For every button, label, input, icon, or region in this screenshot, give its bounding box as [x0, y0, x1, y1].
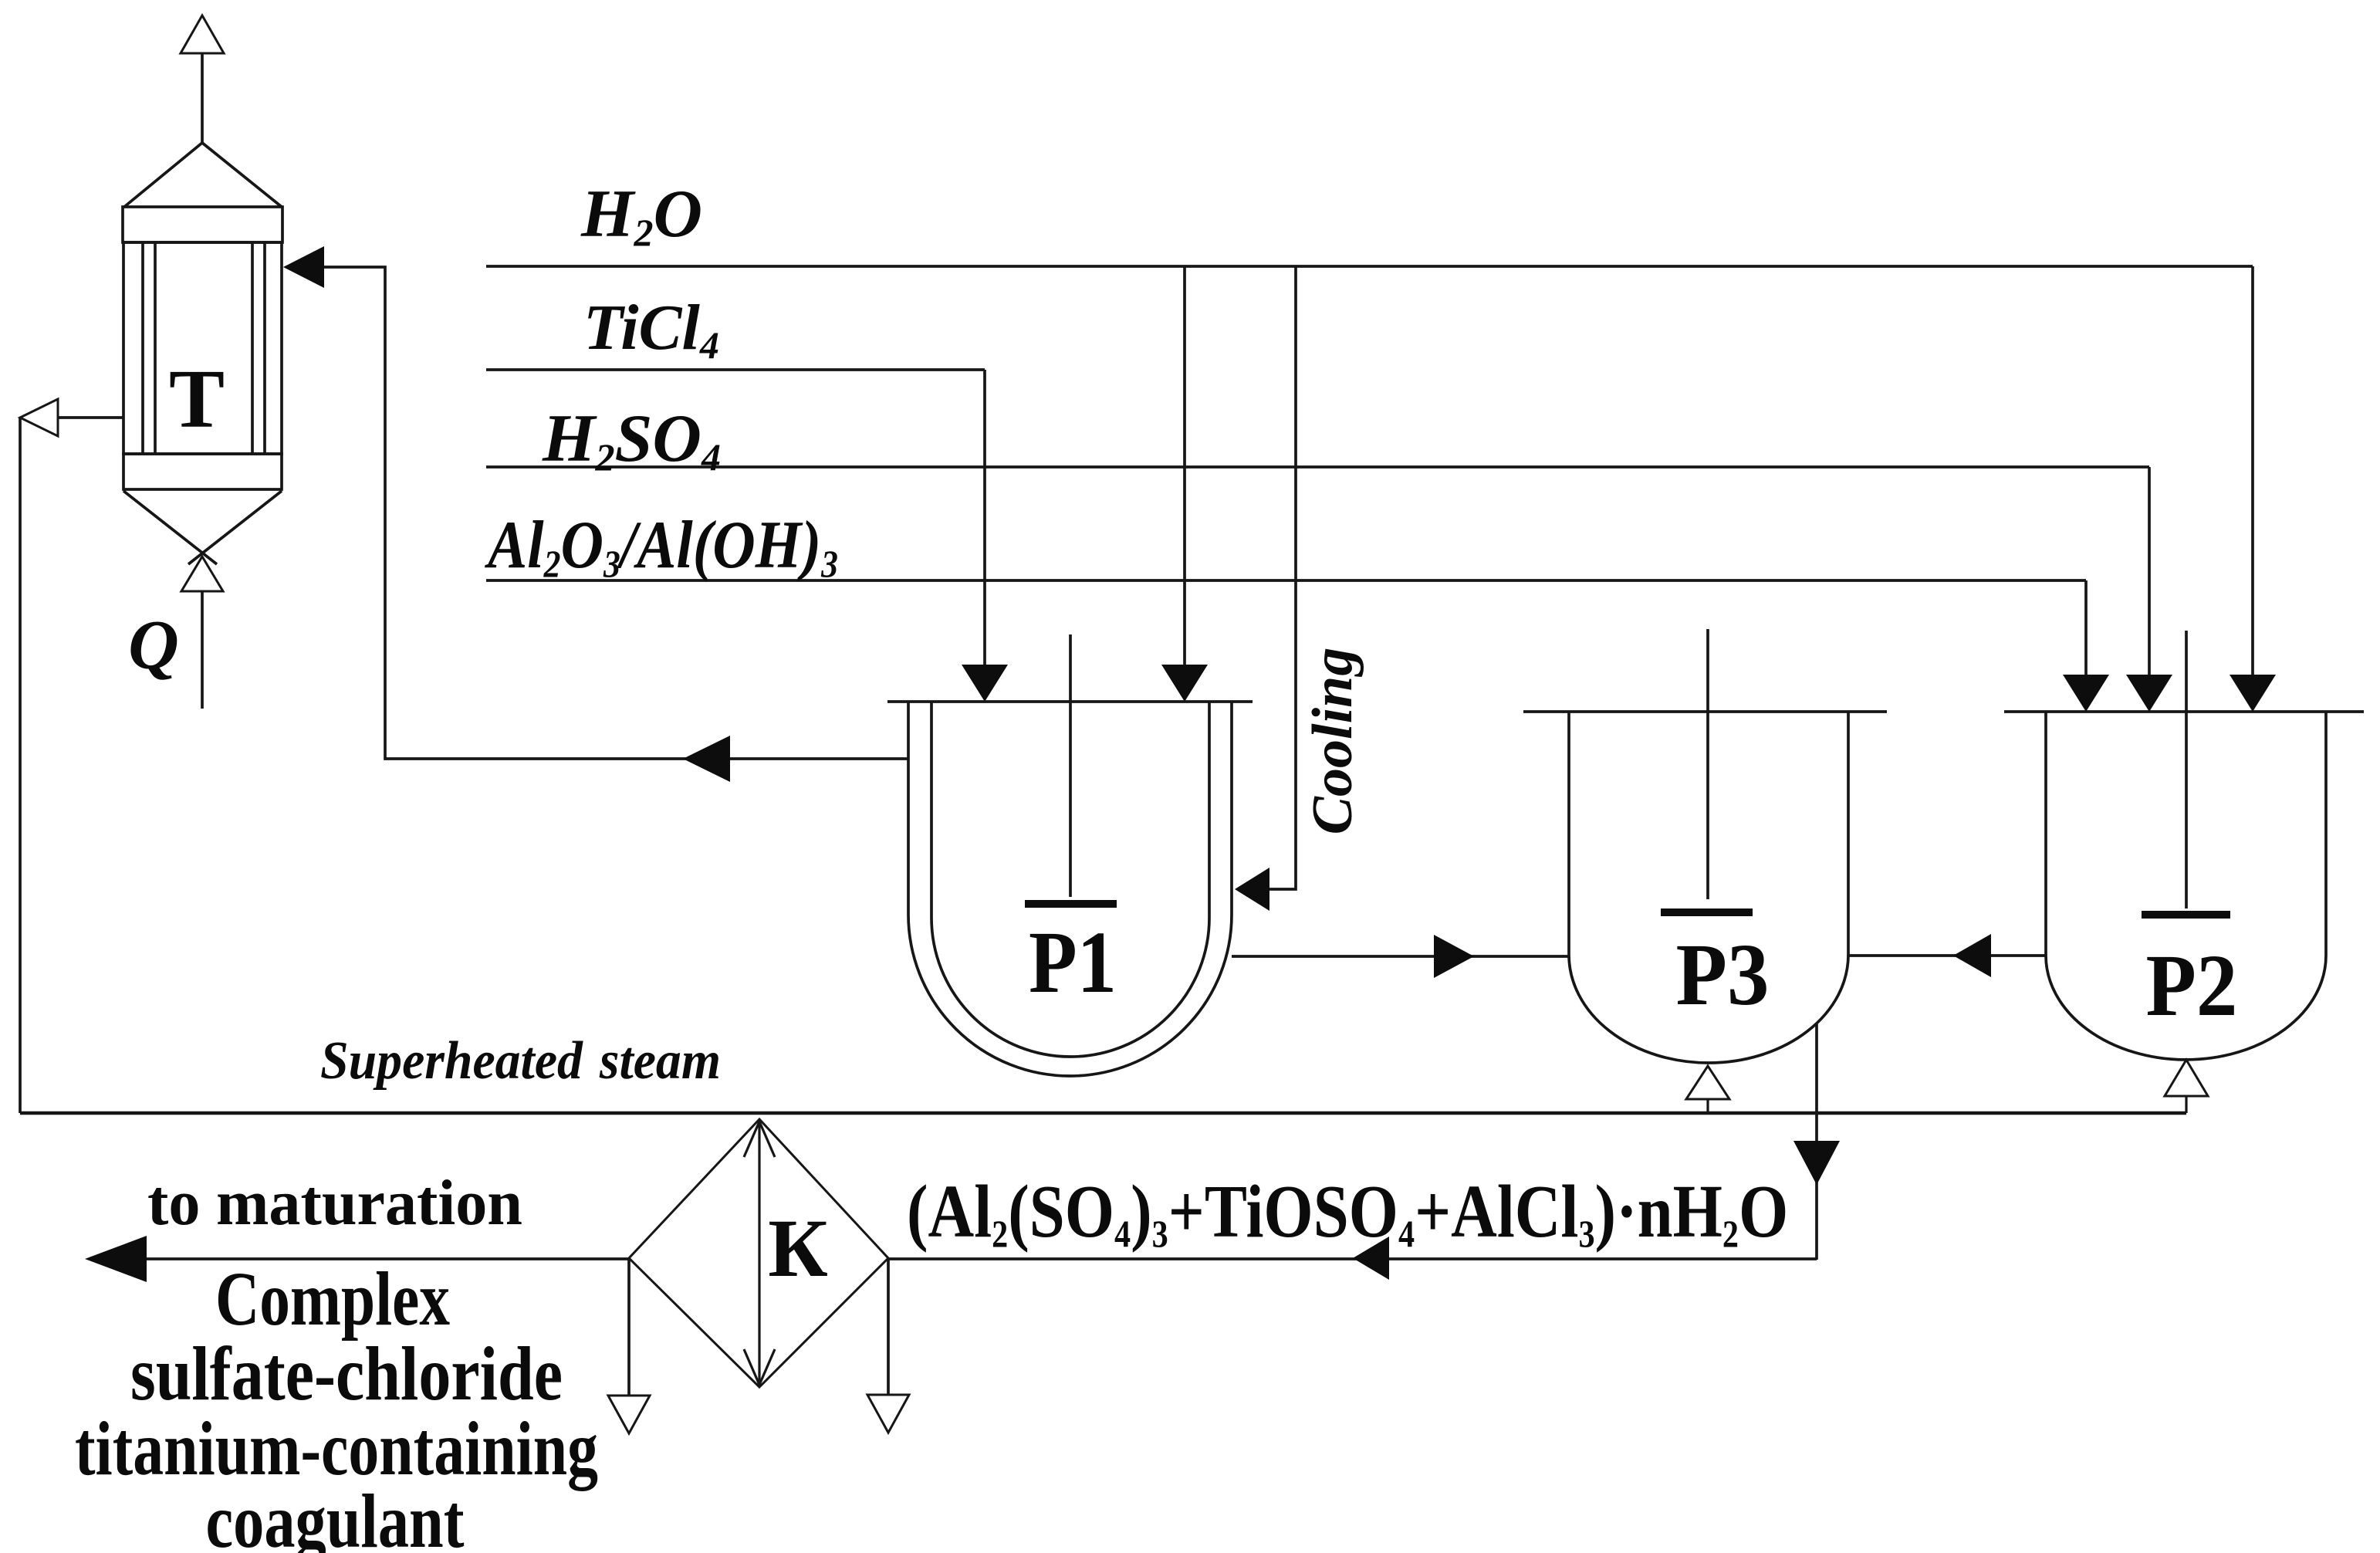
- product wire K to maturation: [147, 1257, 629, 1260]
- arrow TiCl4 into P1: [962, 665, 1008, 702]
- T left outlet wire: [58, 416, 123, 419]
- sparger stub P2: [2185, 1096, 2187, 1113]
- arrowhead P1 to P3: [1434, 935, 1474, 978]
- vessel T top vent arrow: [181, 15, 224, 143]
- open arrow left of T: [20, 399, 58, 436]
- P3 steam sparger open arrow: [1686, 1066, 1729, 1099]
- superheated steam header: [20, 1111, 2186, 1115]
- cooling water wire: [1269, 266, 1296, 889]
- wire H2O down to P2: [2251, 266, 2254, 678]
- arrow into T right side: [283, 246, 324, 288]
- arrowhead on product wire: [1353, 1237, 1389, 1280]
- label product formula: [907, 1169, 1788, 1255]
- arrow H2O into P2: [2230, 675, 2276, 712]
- wire P1 outlet to P3: [1232, 955, 1569, 958]
- product wire P3 to K: [888, 1257, 1817, 1260]
- arrow H2SO4 into P2: [2126, 675, 2172, 712]
- wire Al2O3 down to P2: [2084, 580, 2088, 678]
- H2O feed line: [486, 265, 2253, 268]
- wire TiCl4 down to P1: [983, 370, 986, 668]
- P1 stirrer shaft: [1069, 634, 1072, 897]
- reactor P3 vessel: [1569, 712, 1848, 1063]
- svg-text:Cooling: Cooling: [1301, 648, 1364, 835]
- heat exchanger K diamond: [629, 1119, 888, 1387]
- arrowhead P3 outlet: [1793, 1141, 1840, 1185]
- svg-text:(Al2(SO4)3+TiOSO4+AlCl3)·nH2O: (Al2(SO4)3+TiOSO4+AlCl3)·nH2O: [907, 1169, 1788, 1255]
- T bottom inlet open arrow: [181, 557, 223, 591]
- wire P2 outlet to P3: [1848, 954, 2046, 957]
- arrow cooling into P1 jacket: [1235, 868, 1269, 911]
- svg-text:Q: Q: [128, 606, 179, 684]
- svg-text:P1: P1: [1029, 913, 1117, 1011]
- svg-text:coagulant: coagulant: [206, 1478, 465, 1553]
- vessel T column body: [123, 143, 282, 564]
- Al2O3/Al(OH)3 feed line: [486, 579, 2086, 582]
- reactor P1 jacket outer wall: [908, 702, 1232, 1076]
- P3 stirrer shaft: [1706, 629, 1709, 899]
- reactor P2 rim: [2004, 710, 2364, 713]
- K right drain wire: [887, 1258, 890, 1395]
- arrowhead on recycle wire: [683, 736, 730, 782]
- svg-text:Al2O3/Al(OH)3: Al2O3/Al(OH)3: [485, 508, 838, 585]
- H2SO4 feed line: [486, 465, 2149, 469]
- svg-text:TiCl4: TiCl4: [583, 292, 719, 367]
- K left drain open arrow: [608, 1396, 650, 1433]
- arrow Al2O3 into P2: [2063, 675, 2109, 712]
- arrow H2O into P1: [1161, 665, 1208, 702]
- svg-text:Superheated steam: Superheated steam: [320, 1031, 721, 1091]
- wire H2O down to P1: [1183, 266, 1186, 668]
- svg-text:sulfate-chloride: sulfate-chloride: [130, 1331, 563, 1416]
- P2 stirrer blade: [2142, 911, 2230, 919]
- reactor P1 inner vessel: [931, 702, 1209, 1057]
- reactor P3 rim: [1523, 710, 1887, 713]
- svg-text:К: К: [768, 1203, 828, 1294]
- svg-text:to maturation: to maturation: [147, 1167, 522, 1239]
- reactor P1 rim: [887, 700, 1253, 703]
- wire H2SO4 down to P2: [2148, 467, 2151, 678]
- svg-text:P2: P2: [2146, 936, 2238, 1034]
- svg-text:P3: P3: [1676, 925, 1770, 1023]
- P2 steam sparger open arrow: [2165, 1060, 2208, 1096]
- wire P3 outlet down: [1815, 1023, 1818, 1260]
- P1 stirrer blade: [1025, 900, 1117, 908]
- svg-text:Complex: Complex: [215, 1256, 450, 1342]
- P2 stirrer shaft: [2185, 631, 2188, 908]
- K right drain open arrow: [867, 1395, 909, 1433]
- svg-text:T: T: [169, 354, 225, 445]
- wire: recycle from P1 to T: [324, 267, 908, 759]
- wire: left vertical down to steam header: [19, 418, 22, 1113]
- arrowhead P2 to P3: [1953, 934, 1991, 977]
- TiCl4 feed line: [486, 368, 985, 371]
- sparger stub P3: [1706, 1099, 1709, 1112]
- Q feed wire: [201, 591, 204, 709]
- svg-text:H2SO4: H2SO4: [542, 401, 721, 479]
- P3 stirrer blade: [1661, 908, 1753, 916]
- K left drain wire: [627, 1258, 630, 1396]
- reactor P2 vessel: [2046, 712, 2326, 1060]
- arrowhead to maturation: [85, 1236, 147, 1282]
